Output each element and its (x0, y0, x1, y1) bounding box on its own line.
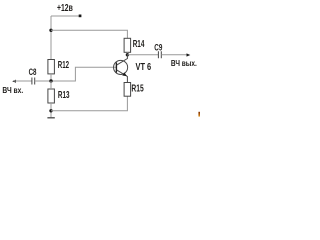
svg-text:ВЧ вых.: ВЧ вых. (171, 59, 197, 68)
resistor R13 (48, 89, 70, 103)
svg-text:R15: R15 (131, 83, 144, 94)
node +12V terminal dot (79, 15, 82, 18)
wire input to C8 (14, 80, 32, 82)
wire bottom return to R15 (51, 96, 127, 111)
resistor R14 (124, 38, 145, 52)
wire +12V feed horizontal (51, 15, 80, 17)
svg-text:C8: C8 (29, 67, 37, 78)
svg-text:VT 6: VT 6 (136, 62, 152, 73)
wire junction to C9 (127, 54, 158, 56)
svg-text:+12в: +12в (57, 3, 73, 14)
node junction collector / C9 (126, 53, 129, 56)
ground (47, 117, 54, 119)
resistor R15 (124, 83, 144, 97)
transistor VT6 (114, 55, 152, 96)
capacitor C9 (154, 43, 162, 59)
svg-text:ВЧ вх.: ВЧ вх. (2, 86, 23, 95)
svg-text:R13: R13 (58, 90, 70, 101)
svg-text:C9: C9 (154, 43, 162, 54)
wire R12 bottom stub (50, 74, 52, 81)
capacitor C8 (29, 67, 37, 85)
wire C9 to output (161, 54, 188, 56)
wire C8 to base corner (35, 67, 117, 81)
node output arrow (187, 53, 191, 56)
wire left rail vertical (50, 16, 52, 60)
wire R13 stubs to ground (50, 81, 52, 117)
node junction R13 bottom (49, 109, 52, 112)
wire R14 bottom stub (126, 52, 128, 55)
node junction base divider (49, 79, 52, 82)
resistor R12 (48, 60, 69, 74)
svg-text:R12: R12 (58, 60, 70, 71)
node junction rail to R14 branch (49, 29, 52, 32)
svg-text:R14: R14 (133, 39, 145, 50)
node input arrow (12, 80, 16, 83)
wire top rail to R14 (51, 30, 127, 38)
